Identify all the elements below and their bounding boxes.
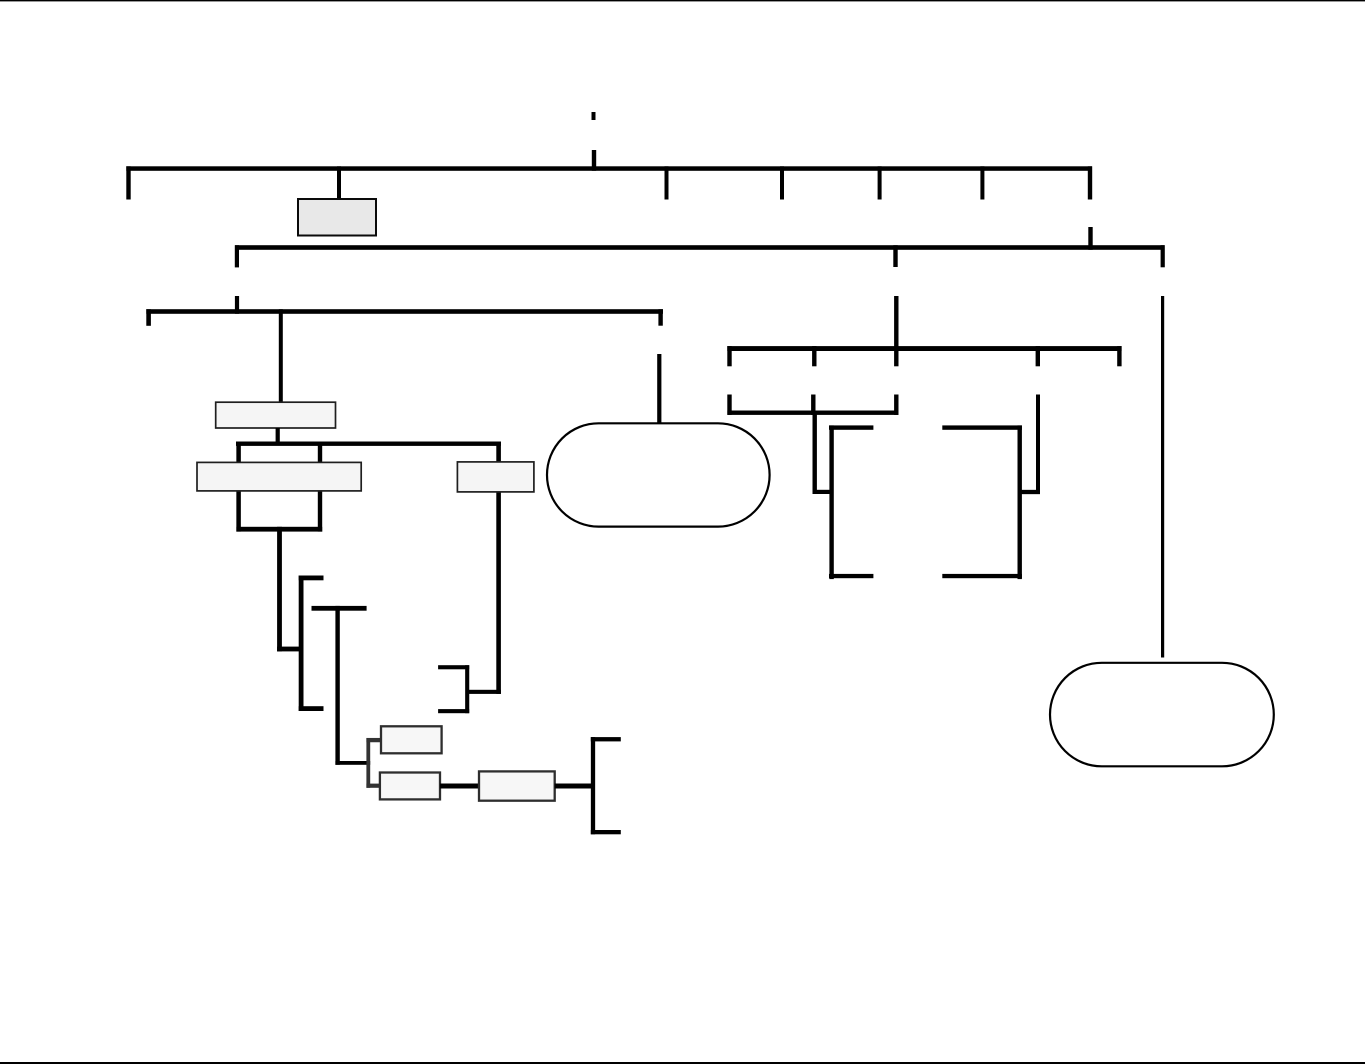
line1 tick to label box 1 (337, 166, 341, 199)
bottom page edge bar (0, 1062, 1365, 1064)
right child bracket top arm (591, 737, 621, 741)
sibling rail top arm (299, 576, 324, 581)
elbow into right tall bracket (1020, 490, 1040, 494)
T branch stem (335, 606, 339, 765)
riser through line4 (894, 296, 898, 366)
generation line 4 (727, 346, 1121, 351)
child bracket top arm (366, 738, 381, 742)
stadium shape 2 (1050, 663, 1274, 767)
root drop into generation line 1 (592, 150, 596, 171)
root stub tick (592, 112, 596, 120)
label box 6 (380, 773, 440, 800)
small bracket vertical (465, 665, 469, 713)
generation line 3 (146, 309, 663, 314)
line2 left end tick (235, 245, 239, 267)
line4 tick b (1036, 346, 1040, 366)
sub line 6 (727, 411, 898, 415)
elbow to sibling rail (277, 647, 303, 652)
line6 middle riser (811, 395, 815, 415)
drop box2 to couple line (276, 428, 280, 443)
line2 right end tick (1161, 245, 1165, 267)
label box 2 (216, 402, 336, 428)
top page edge bar (0, 0, 1365, 1)
drop from line6 (813, 411, 817, 494)
child bracket bottom arm (366, 784, 380, 788)
long drop into stadium 2 (1161, 296, 1164, 658)
line4 left end tick (727, 346, 731, 366)
U bracket right side (318, 442, 322, 532)
label box 4 (457, 462, 534, 492)
line2 middle tick (893, 245, 897, 267)
right tall bracket top arm (942, 425, 1022, 429)
drop right of line4 (1036, 395, 1040, 495)
small bracket top arm (438, 665, 469, 669)
riser into line3 (235, 296, 239, 314)
riser into line2 right (1088, 227, 1092, 250)
line3 right end tick (658, 309, 662, 326)
label box 3 (197, 462, 361, 491)
child bracket vertical (366, 738, 370, 788)
line1 tick c (878, 166, 882, 199)
right child bracket vertical (591, 737, 595, 834)
label box 7 (479, 771, 555, 800)
descender from U bottom (277, 527, 282, 652)
left tall bracket top arm (829, 425, 873, 429)
line1 left end tick (126, 166, 130, 199)
right tall bracket bottom arm (942, 574, 1022, 578)
U bracket bottom (236, 527, 322, 532)
right tall bracket vertical (1018, 425, 1022, 579)
elbow into small bracket (469, 690, 501, 694)
generation line 1 (126, 166, 1092, 171)
line6 right riser (894, 395, 898, 415)
elbow into left tall bracket (813, 490, 832, 494)
line1 tick b (780, 166, 784, 199)
line4 tick a (812, 346, 816, 366)
label box 1 (298, 199, 376, 236)
left tall bracket vertical (829, 425, 833, 579)
drop line3 to label box 2 (279, 309, 283, 402)
sibling rail bottom arm (299, 706, 324, 711)
line4 right end tick (1117, 346, 1121, 366)
left tall bracket bottom arm (829, 574, 873, 578)
marriage connector right (555, 784, 593, 789)
drop into stadium 1 (657, 354, 661, 424)
sibling rail vertical (299, 576, 304, 712)
line3 left end tick (146, 309, 151, 326)
small bracket bottom arm (438, 709, 469, 713)
line1 right end tick (1088, 166, 1092, 199)
stadium shape 1 (547, 423, 770, 526)
T stem elbow to child bracket (335, 761, 370, 765)
generation line 2 (235, 245, 1165, 250)
line1 tick a (665, 166, 669, 199)
line6 left riser (727, 395, 731, 415)
right child bracket bottom arm (591, 830, 621, 834)
T branch bar (312, 606, 367, 611)
U bracket left side (236, 442, 241, 532)
label box 5 (381, 726, 442, 753)
couple line 5 (236, 442, 501, 446)
line1 tick d (980, 166, 984, 199)
right drop from couple line (496, 442, 501, 694)
marriage connector left (440, 784, 479, 789)
